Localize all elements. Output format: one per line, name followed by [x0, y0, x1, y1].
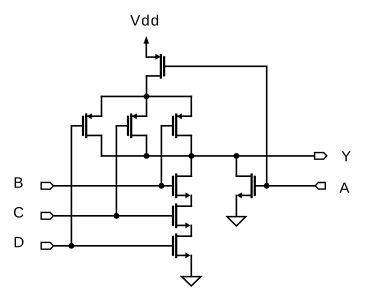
wire pin D to Q7 gate	[53, 245, 173, 247]
wire pin C to Q6 gate	[53, 215, 173, 217]
junction dot node A / Q1 gate wire	[264, 183, 270, 189]
wire B input riser to Q4 gate	[160, 126, 162, 186]
transistor Q5 NMOS (gate B)	[173, 173, 191, 198]
wire Q7 source to ground	[190, 255, 192, 276]
wire Q6 source to Q7 drain	[190, 225, 192, 236]
wire pin B to Q5 gate	[53, 185, 173, 187]
label D	[15, 237, 24, 247]
Vdd power symbol	[144, 36, 150, 57]
wire PMOS source rail	[102, 95, 192, 97]
label Vdd	[130, 15, 158, 26]
transistor Q2 PMOS (gate D)	[71, 113, 101, 138]
transistor Q7 NMOS (gate D)	[173, 233, 191, 258]
junction dot Y rail / Q3 drain	[144, 153, 150, 159]
label A	[339, 183, 349, 193]
input pin B	[41, 182, 53, 189]
label C	[14, 207, 23, 218]
wire Q8 source to ground	[235, 195, 237, 216]
transistor Q8 keeper NMOS (gate to pin A)	[236, 173, 254, 198]
input pin A	[315, 183, 325, 190]
wire Q3 drain down to output rail	[146, 135, 148, 156]
input pin C	[41, 212, 53, 219]
wire D input riser to Q2 gate	[70, 126, 72, 246]
wire Y rail to Q8 drain	[235, 156, 237, 176]
wire output rail Y	[102, 155, 315, 157]
junction dot D riser	[69, 243, 75, 249]
wire Q8 gate to pin A	[255, 185, 315, 187]
ground symbol under Q7	[182, 277, 201, 286]
wire rail left drop to Q2 source	[101, 96, 103, 116]
wire Q1 drain down through rail junction to Q3 source	[146, 76, 148, 116]
junction dot rail / Q1 drain	[144, 94, 150, 100]
wire rail right drop to Q4 source	[190, 96, 192, 116]
wire C input riser to Q3 gate	[115, 126, 117, 216]
ground symbol under Q8	[227, 217, 246, 226]
wire Q5 drain up to Y rail	[190, 156, 192, 176]
junction dot C riser	[114, 213, 120, 219]
output pin Y	[315, 153, 327, 160]
wire Q4 drain down to output rail	[190, 135, 192, 156]
junction dot Y rail / Q8 drain	[234, 153, 240, 159]
wire Q2 drain down to output rail	[101, 135, 103, 156]
junction dot Y rail / Q4 drain / Q5 drain	[188, 153, 194, 159]
label B	[15, 177, 23, 187]
transistor Q1 pull-up PMOS (gate to node A)	[147, 54, 165, 79]
wire Q5 source to Q6 drain	[190, 195, 192, 206]
label Y	[341, 151, 350, 161]
wire Q1 gate to node A	[164, 66, 267, 186]
wire Vdd to Q1 source	[146, 56, 158, 58]
input pin D	[41, 242, 53, 249]
transistor Q4 PMOS (gate B)	[161, 113, 191, 138]
junction dot B riser	[159, 183, 165, 189]
transistor Q3 PMOS (gate C)	[116, 113, 146, 138]
transistor Q6 NMOS (gate C)	[173, 203, 191, 228]
